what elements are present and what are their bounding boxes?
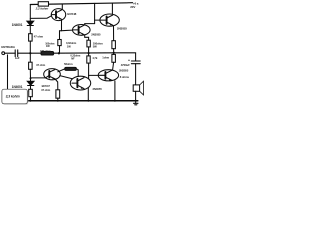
- wire D1 to R2: [29, 25, 31, 34]
- transistor Q4 BC547 (lower driver input): [44, 69, 61, 80]
- transistor Q5 driver (lower): [70, 76, 90, 90]
- resistor R7 4,7kohm: [87, 56, 90, 63]
- resistor R10 1 ohm (lower emitter resistor): [112, 54, 116, 62]
- wire Q5 collector up: [88, 75, 90, 79]
- wire R3 to node E and Q4 base: [30, 69, 45, 78]
- transistor Q6 2N3055 (lower output): [98, 70, 118, 81]
- resistor R5 470 ohm (series in bus): [41, 52, 54, 56]
- diode D1 1N4001: [27, 21, 34, 25]
- node dots on ground rail: [30, 100, 32, 102]
- resistor R2 47 ohm: [29, 34, 32, 41]
- svg-text:2N3055: 2N3055: [117, 26, 127, 30]
- resistor R6 100ohm 5W: [87, 40, 90, 47]
- wire Q1 collector to rail: [61, 4, 63, 9]
- wire Q3 base tap: [95, 19, 100, 21]
- wire Q6 collector up: [113, 62, 114, 70]
- wire bias vertical from rail: [94, 3, 96, 23]
- svg-text:BC547: BC547: [42, 84, 51, 88]
- svg-text:20V: 20V: [130, 5, 135, 9]
- wire Q6 emitter down: [114, 81, 116, 101]
- wire Q2 emitter down: [85, 35, 89, 40]
- svg-text:ENTRADA: ENTRADA: [1, 45, 15, 49]
- wire R2 to node A: [29, 41, 31, 53]
- svg-text:1W: 1W: [67, 45, 71, 49]
- wire R6 to node C: [88, 47, 90, 53]
- transistor Q1 BC548: [51, 9, 65, 21]
- wire R4 to ground rail: [30, 97, 32, 101]
- node D output: [113, 52, 115, 54]
- svg-text:0,33ohm: 0,33ohm: [66, 41, 77, 45]
- wire cap to speaker: [135, 64, 137, 85]
- speaker LS1: [133, 81, 143, 95]
- wire R9 to node D: [113, 49, 115, 53]
- svg-text:1N4001: 1N4001: [12, 85, 23, 89]
- wire Q2 collector up and right to node: [85, 24, 95, 25]
- wire D2 to R4: [30, 85, 32, 89]
- wire node A down to R3: [29, 53, 31, 62]
- ground symbol: [135, 101, 137, 104]
- wire output to cap: [114, 53, 136, 61]
- wire bus to output node: [54, 52, 114, 54]
- wire Q1 emitter to Q2 base: [60, 29, 73, 32]
- wire input ground vertical: [7, 55, 9, 89]
- svg-text:1W: 1W: [46, 44, 50, 48]
- capacitor C1 1uF: [14, 50, 16, 57]
- resistor R4 47 ohm: [29, 89, 33, 96]
- resistor R9 (upper emitter resistor): [112, 41, 116, 49]
- node E junction diode branch: [30, 77, 32, 79]
- svg-text:2N3055: 2N3055: [91, 32, 101, 36]
- transistor Q2 driver: [73, 25, 91, 36]
- svg-text:8 ohms: 8 ohms: [120, 75, 130, 79]
- resistor R1 2,2 kohm (series in rail): [38, 2, 48, 6]
- svg-text:4700uF: 4700uF: [121, 63, 130, 67]
- wire input: [5, 52, 16, 54]
- wire Q4 emitter down: [55, 79, 58, 90]
- svg-text:56ohm: 56ohm: [64, 62, 73, 66]
- resistor R3 47 ohm: [29, 62, 32, 69]
- svg-text:3,3 kohm: 3,3 kohm: [6, 95, 20, 99]
- wire left branch vertical top: [29, 5, 31, 22]
- wire Q4 to Q5 link: [60, 76, 73, 79]
- svg-text:2N3055: 2N3055: [93, 87, 103, 91]
- svg-text:47 ohm: 47 ohm: [34, 35, 44, 39]
- svg-text:4,7k: 4,7k: [92, 56, 97, 60]
- svg-text:1uF: 1uF: [15, 56, 20, 60]
- wire Q3 collector to rail: [111, 3, 113, 14]
- node C: [88, 52, 90, 54]
- capacitor C2 4700uF: [131, 60, 140, 62]
- svg-text:47 ohm: 47 ohm: [41, 88, 51, 92]
- svg-text:1N4001: 1N4001: [12, 23, 23, 27]
- wire diode branch lower: [30, 78, 32, 81]
- svg-text:1ohm: 1ohm: [102, 56, 109, 60]
- resistor R12 (Q1 emitter to bus): [59, 31, 61, 40]
- wire bus: [30, 52, 41, 54]
- node A: [29, 52, 31, 54]
- wire R11 to Q5: [76, 69, 78, 77]
- svg-text:5W: 5W: [93, 45, 97, 49]
- wire Q1 base: [30, 16, 51, 19]
- diode D2 1N4001: [27, 81, 34, 85]
- wire top +V rail: [30, 3, 132, 5]
- wire Q5 emitter down: [87, 88, 89, 101]
- svg-text:+: +: [128, 58, 130, 62]
- wire Q6 base: [89, 74, 99, 76]
- svg-text:47 ohm: 47 ohm: [36, 63, 46, 67]
- transistor Q3 2N3055 (upper output): [100, 14, 119, 26]
- wire ground rail: [28, 100, 138, 102]
- svg-text:2N3055: 2N3055: [119, 69, 129, 73]
- resistor R8 47 ohm: [56, 90, 60, 98]
- wire R8 to ground rail: [57, 98, 59, 101]
- svg-text:BC548: BC548: [67, 12, 76, 16]
- wire speaker to ground: [135, 91, 137, 101]
- svg-text:2,2 kohm: 2,2 kohm: [35, 6, 49, 10]
- svg-text:NF: NF: [71, 57, 75, 61]
- svg-text:470 ohm: 470 ohm: [40, 49, 51, 53]
- wire to node A: [18, 52, 31, 54]
- wire Q1 emitter down: [61, 20, 63, 31]
- resistor R11 56 ohm (horizontal, dark): [65, 67, 77, 70]
- node B: [58, 52, 60, 54]
- wire Q3 emitter down: [113, 26, 115, 41]
- note callout box 3,3 kohm: [2, 89, 28, 104]
- input terminal: [2, 52, 5, 55]
